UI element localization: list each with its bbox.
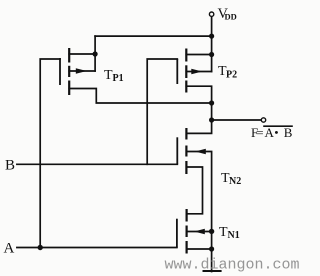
terminal VDD open circle bbox=[209, 12, 213, 16]
wire TP2 source-substrate tie bbox=[211, 55, 213, 72]
wire VDD stem bbox=[211, 17, 213, 36]
svg-text:•: • bbox=[275, 127, 279, 139]
node dot input A bbox=[38, 245, 43, 250]
svg-text:P1: P1 bbox=[113, 73, 124, 84]
node dot TN1 substrate bbox=[209, 229, 214, 234]
transistor TP1 gate bar bbox=[59, 58, 61, 85]
arrow TN2 substrate (NMOS, points left) bbox=[195, 149, 206, 154]
wire TP1 source stub bbox=[69, 53, 95, 55]
wire input B line bbox=[17, 163, 177, 165]
svg-text:P2: P2 bbox=[226, 70, 237, 81]
wire TP1 source riser bbox=[94, 36, 96, 54]
arrow TP1 substrate (PMOS, points right) bbox=[76, 68, 87, 74]
svg-text:B: B bbox=[284, 125, 293, 140]
wire TN2 source to TN1 drain bbox=[186, 167, 202, 214]
wire output column bbox=[211, 103, 213, 120]
wire A to TP1 gate bbox=[40, 59, 60, 248]
transistor TN1 channel segments bbox=[186, 209, 188, 222]
transistor TN1 gate bar bbox=[176, 219, 178, 248]
wire TP1 drain stub bbox=[69, 89, 211, 104]
svg-text:B: B bbox=[5, 158, 15, 174]
node dot output F bbox=[209, 117, 214, 122]
svg-text:A: A bbox=[265, 125, 275, 140]
wire right column VDD to TP2 source bbox=[211, 36, 213, 54]
wire TP1 substrate stub bbox=[69, 70, 95, 72]
arrow TP2 substrate (PMOS, points right) bbox=[191, 69, 202, 75]
wire top rail bbox=[95, 35, 212, 37]
transistor TP1 channel segments bbox=[68, 48, 70, 63]
node dot drain junction bbox=[209, 100, 214, 105]
svg-text:N1: N1 bbox=[228, 230, 240, 241]
overbar of A·B bbox=[263, 125, 293, 127]
svg-text:A: A bbox=[4, 241, 15, 257]
ground bar bbox=[204, 270, 221, 272]
wire TN2 drain stub bbox=[186, 120, 211, 133]
wire TN2 substrate stub bbox=[186, 152, 211, 272]
node dot top rail / VDD bbox=[209, 34, 214, 39]
transistor TN2 channel segments bbox=[185, 128, 187, 140]
node dot TP2 source bbox=[209, 52, 214, 57]
svg-text:N2: N2 bbox=[229, 176, 241, 187]
transistor TN2 gate bar bbox=[176, 137, 178, 164]
wire TP2 source stub bbox=[186, 54, 211, 56]
wire TN1 substrate stub bbox=[187, 231, 212, 233]
svg-text:www.diangon.com: www.diangon.com bbox=[165, 257, 300, 274]
wire output lead bbox=[212, 119, 261, 121]
terminal F open circle bbox=[261, 118, 265, 122]
node dot TP1 source bbox=[93, 51, 98, 56]
transistor TP2 channel segments bbox=[185, 49, 187, 62]
transistor TP2 gate bar bbox=[176, 59, 178, 84]
node dot TN1 source bbox=[209, 246, 214, 251]
wire TP2 substrate stub bbox=[186, 71, 211, 73]
wire B to TP2 gate bbox=[147, 59, 177, 164]
wire TN1 source stub bbox=[187, 248, 212, 250]
wire input A line bbox=[17, 247, 177, 249]
wire TP2 drain stub bbox=[186, 86, 211, 103]
svg-text:=: = bbox=[256, 125, 263, 140]
svg-text:DD: DD bbox=[225, 12, 237, 22]
arrow TN1 substrate (NMOS, points left) bbox=[194, 229, 205, 234]
wire TP1 substrate tie bbox=[94, 54, 96, 71]
